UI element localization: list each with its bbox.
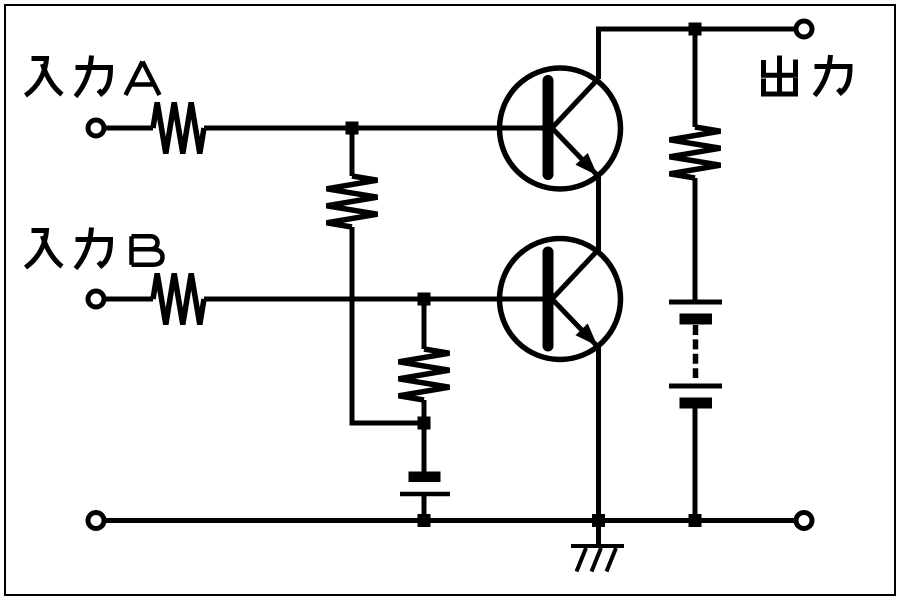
wire junction B down to R4 bbox=[422, 299, 427, 349]
transistor Q2 bbox=[500, 239, 621, 360]
node junction rail C bbox=[418, 514, 431, 527]
terminal output bbox=[796, 21, 812, 37]
node junction B bbox=[418, 293, 431, 306]
capacitor C1 bottom plate bbox=[400, 492, 450, 497]
terminal input B bbox=[88, 291, 104, 307]
wire ground rail bbox=[106, 518, 794, 523]
node 入力A label bbox=[26, 56, 160, 97]
wire node C to capacitor C1 bbox=[422, 423, 427, 472]
node junction rail emitter bbox=[592, 514, 605, 527]
terminal input A bbox=[88, 120, 104, 136]
resistor R3 bbox=[153, 274, 204, 325]
resistor R5 bbox=[670, 127, 721, 178]
ground bbox=[571, 521, 624, 572]
wire input B to R3 bbox=[106, 297, 153, 302]
terminal common right bbox=[796, 513, 812, 529]
resistor R2 bbox=[327, 176, 378, 227]
wire R3 to Q2 base bbox=[204, 297, 546, 302]
transistor Q1 bbox=[500, 68, 621, 189]
node junction top bbox=[689, 23, 702, 36]
wire junction A down to R2 bbox=[350, 128, 355, 176]
wire Q1 collector to top rail bbox=[599, 29, 795, 79]
wire BT1 to ground rail bbox=[693, 409, 698, 521]
terminal common left bbox=[88, 513, 104, 529]
node 出力 label bbox=[764, 55, 851, 96]
node junction A bbox=[346, 122, 359, 135]
wire R2 to node C (L-shape) bbox=[352, 227, 424, 423]
node junction rail battery bbox=[689, 514, 702, 527]
wire R4 to node C bbox=[422, 400, 427, 423]
node C junction bbox=[418, 417, 431, 430]
wire C1 to ground rail bbox=[422, 494, 427, 521]
wire Q1 emitter to Q2 collector bbox=[596, 176, 601, 251]
wire input A to R1 bbox=[106, 126, 153, 131]
wire Q2 emitter to ground rail bbox=[596, 347, 601, 521]
resistor R4 bbox=[399, 349, 450, 400]
capacitor C1 top plate bbox=[409, 472, 441, 483]
battery BT1 bbox=[669, 302, 722, 409]
wire R5 to battery BT1 bbox=[693, 178, 698, 302]
node 入力B label bbox=[26, 228, 163, 269]
resistor R1 bbox=[153, 103, 204, 154]
wire R1 to Q1 base bbox=[204, 126, 546, 131]
wire top junction to R5 bbox=[693, 29, 698, 127]
